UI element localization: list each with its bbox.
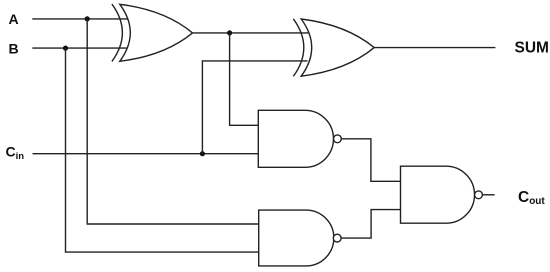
xor gate U1 bbox=[112, 4, 193, 61]
node Cin junction bbox=[200, 151, 205, 156]
input label Cin bbox=[6, 144, 25, 162]
xor gate U2 bbox=[293, 19, 374, 77]
wire XOR U1 output to XOR U2 top input bbox=[193, 32, 309, 34]
wire input B bbox=[32, 47, 128, 49]
svg-text:Cout: Cout bbox=[518, 189, 545, 207]
output label Cout bbox=[518, 189, 545, 207]
nand gate U5 bbox=[401, 166, 483, 223]
wire XOR U1 output branch down to NAND U3 top input bbox=[230, 33, 259, 125]
nand gate U3 bbox=[258, 110, 341, 167]
node A junction bbox=[85, 16, 90, 21]
output label SUM bbox=[515, 39, 549, 56]
input label A bbox=[9, 11, 19, 27]
wire NAND U3 output to NAND U5 top input bbox=[341, 139, 400, 182]
svg-text:A: A bbox=[9, 11, 19, 27]
wire input A bbox=[32, 18, 128, 20]
input label B bbox=[9, 41, 19, 57]
svg-text:SUM: SUM bbox=[515, 39, 549, 56]
wire NAND U5 output to Cout bbox=[482, 194, 494, 196]
wire input Cin bbox=[33, 153, 259, 155]
wire A branch down to NAND U4 top input bbox=[87, 19, 259, 224]
node B junction bbox=[63, 46, 68, 51]
wire NAND U4 output to NAND U5 bottom input bbox=[341, 210, 400, 239]
wire B branch down to NAND U4 bottom input bbox=[66, 48, 259, 252]
nand gate U4 bbox=[259, 210, 341, 266]
node XOR U1 output junction bbox=[227, 30, 232, 35]
wire XOR U2 output to SUM bbox=[374, 47, 495, 49]
svg-text:Cin: Cin bbox=[6, 144, 25, 162]
wire Cin branch up to XOR U2 bottom input bbox=[202, 61, 307, 154]
svg-text:B: B bbox=[9, 41, 19, 57]
